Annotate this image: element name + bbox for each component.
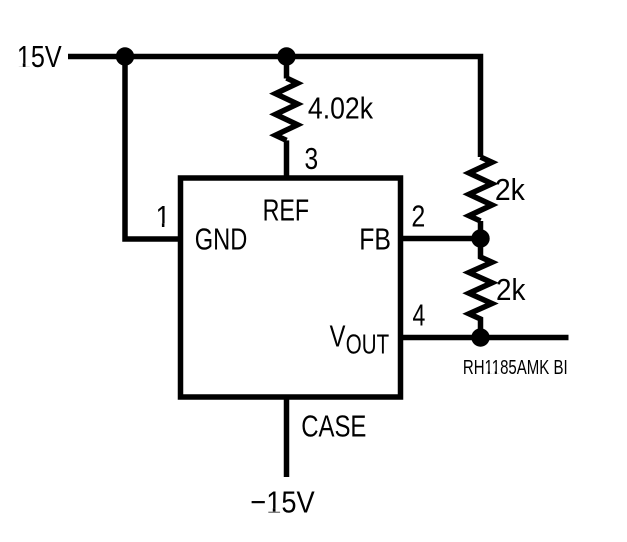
label pin number 3 xyxy=(304,141,318,175)
label RH1185AMK digit-1 feet correction xyxy=(485,371,500,374)
resistor 2k upper xyxy=(469,157,492,221)
label pin VOUT xyxy=(330,319,390,361)
label 2k upper value xyxy=(495,173,525,207)
svg-text:2k: 2k xyxy=(496,273,526,308)
label -15V xyxy=(250,486,315,520)
svg-text:OUT: OUT xyxy=(346,330,389,361)
resistor 4.02k xyxy=(276,78,298,140)
wire CASE pin to -15V xyxy=(284,397,290,477)
label pin CASE xyxy=(301,409,366,444)
label 15V digit-1 foot correction xyxy=(17,63,30,67)
label -15V digit-1 foot correction xyxy=(267,508,280,511)
op-amp U1 RH1185AMK body xyxy=(181,178,401,397)
svg-text:1: 1 xyxy=(156,200,171,234)
label pin REF xyxy=(263,192,310,227)
wire from 4.02k to REF pin 3 xyxy=(284,140,290,178)
node junction FB divider xyxy=(471,229,489,247)
node junction 15V/left branch xyxy=(116,47,134,65)
label pin FB xyxy=(359,222,391,256)
svg-text:−15V: −15V xyxy=(250,486,315,520)
svg-text:RH1185AMK BI: RH1185AMK BI xyxy=(463,356,568,379)
svg-text:GND: GND xyxy=(195,221,248,256)
wire 2k upper to FB node xyxy=(478,221,484,239)
svg-text:CASE: CASE xyxy=(301,409,366,444)
label pin GND xyxy=(195,221,248,256)
svg-text:REF: REF xyxy=(263,192,310,227)
svg-text:4.02k: 4.02k xyxy=(308,91,374,125)
svg-text:3: 3 xyxy=(304,141,318,175)
node junction VOUT xyxy=(471,328,489,346)
wire left vertical from 15V rail to GND pin xyxy=(125,57,181,240)
svg-text:2k: 2k xyxy=(495,173,525,207)
label 4.02k value xyxy=(308,91,374,125)
node junction 15V/4.02k branch xyxy=(277,47,295,65)
wire 15V supply top rail xyxy=(68,57,481,158)
resistor 2k lower xyxy=(469,239,492,338)
label pin number 4 xyxy=(412,297,425,332)
label 15V xyxy=(17,39,62,74)
label pin number 1 xyxy=(156,200,171,234)
label RH1185AMK BI part number xyxy=(463,356,568,379)
wire FB pin 2 to divider node xyxy=(401,236,481,242)
label 2k lower value xyxy=(496,273,526,308)
svg-text:2: 2 xyxy=(411,199,425,233)
wire VOUT pin 4 to output xyxy=(401,335,569,341)
svg-text:4: 4 xyxy=(412,297,425,332)
label pin number 2 xyxy=(411,199,425,233)
svg-text:FB: FB xyxy=(359,222,391,256)
svg-text:15V: 15V xyxy=(17,39,62,74)
label pin number 1 foot correction xyxy=(156,223,170,227)
wire from 15V rail down to 4.02k xyxy=(284,57,290,79)
svg-text:V: V xyxy=(330,319,346,354)
